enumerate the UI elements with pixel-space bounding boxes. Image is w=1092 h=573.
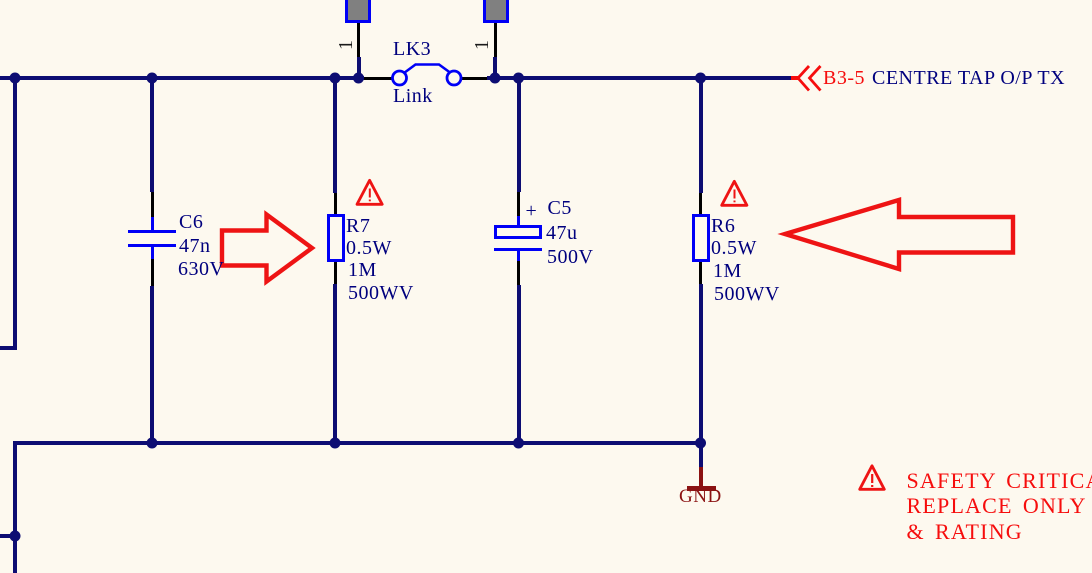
net label CENTRE TAP O/P TX	[872, 68, 1065, 88]
polarity plus of C5	[526, 201, 538, 221]
value 47u	[546, 223, 578, 243]
harness port B3-5 red stub	[791, 76, 799, 80]
wire black segment above C6	[151, 192, 154, 217]
ground GND stem	[699, 467, 703, 486]
junction dot at left vertical / top bus	[10, 73, 21, 84]
wire from pin 2 to bus	[493, 57, 497, 78]
capacitor C6 bottom plate	[128, 244, 176, 247]
junction dot at C6 / top bus	[147, 73, 158, 84]
value 500WV (R6)	[714, 284, 780, 304]
warning triangle at safety note	[860, 466, 885, 490]
junction dot bottom left	[10, 531, 21, 542]
wire black segment below C6	[151, 259, 154, 286]
resistor R6 body	[692, 214, 710, 262]
value 630V	[178, 259, 224, 279]
safety note line 1	[907, 470, 1092, 492]
wire black segment below R7	[334, 261, 337, 284]
ground GND bar	[687, 486, 716, 491]
wire black segment below C5	[517, 261, 520, 285]
red arrow pointing right at R7	[222, 215, 312, 282]
wire black pin stub left of link LK3	[364, 77, 393, 80]
wire C5 branch lower	[517, 285, 521, 445]
pin number 1 of connector pin 2	[472, 35, 492, 55]
harness port B3-5 chevron 1	[798, 66, 809, 91]
label Link	[393, 86, 433, 106]
wire black stem of connector pin 2	[494, 22, 497, 57]
junction dot at R7 / top bus	[330, 73, 341, 84]
wire R6 branch upper	[699, 76, 703, 193]
wire black segment above R6	[699, 193, 702, 215]
connector pin 2	[483, 0, 509, 23]
wire top bus left segment	[0, 76, 364, 80]
wire C6 branch lower	[150, 286, 154, 445]
warning triangle at R6	[722, 181, 747, 205]
value 500WV (R7)	[348, 283, 414, 303]
wire R7 branch upper	[333, 76, 337, 193]
capacitor C6 top plate	[128, 230, 176, 233]
wire C5 branch upper	[517, 76, 521, 192]
link LK3 removable strap	[404, 65, 450, 74]
wire top bus right segment	[487, 76, 792, 80]
connector pin 1	[345, 0, 371, 23]
junction dot at C5 / bottom bus	[513, 438, 524, 449]
label R7	[346, 216, 370, 236]
wire black segment above C5	[517, 192, 520, 216]
wire black segment below R6	[699, 261, 702, 284]
value 1M (R7)	[348, 260, 377, 280]
label R6	[711, 216, 735, 236]
junction dot at R6 / top bus	[695, 73, 706, 84]
value 500V	[547, 247, 593, 267]
wire R6 branch lower to ground	[699, 284, 703, 467]
junction dot at pin 1 / top bus	[353, 73, 364, 84]
junction dot at R7 / bottom bus	[330, 438, 341, 449]
safety note line 3	[907, 521, 1023, 543]
label GND	[679, 487, 722, 507]
link LK3 left terminal circle	[393, 71, 407, 85]
label C6	[179, 212, 203, 232]
wire left stub to edge	[0, 346, 17, 350]
harness port B3-5 chevron 2	[810, 66, 821, 91]
wire black pin stub right of link LK3	[461, 77, 487, 80]
value 47n	[179, 236, 211, 256]
capacitor C6 bottom stub	[151, 246, 154, 259]
resistor R7 body	[327, 214, 345, 262]
warning triangle at R7	[357, 180, 382, 204]
label LK3	[393, 39, 431, 59]
wire left vertical from top bus	[13, 76, 17, 350]
wire black segment above R7	[334, 193, 337, 215]
junction dot at C6 / bottom bus	[147, 438, 158, 449]
wire C6 branch upper	[150, 76, 154, 192]
wire bottom left vertical	[13, 441, 17, 573]
capacitor C5 top stub	[517, 216, 520, 226]
wire R7 branch lower	[333, 284, 337, 445]
capacitor C6 top stub	[151, 217, 154, 231]
junction dot at C5 / top bus	[513, 73, 524, 84]
label C5	[548, 198, 572, 218]
wire black stem of connector pin 1	[357, 22, 360, 57]
capacitor C5 bottom stub	[517, 250, 520, 261]
capacitor C5 bottom plate	[494, 248, 542, 251]
wire bottom left stub to edge	[0, 534, 17, 538]
red arrow pointing left at R6	[785, 200, 1013, 269]
pin number 1 of connector pin 1	[336, 35, 356, 55]
port name B3-5	[823, 68, 865, 88]
wire from pin 1 to bus	[357, 57, 361, 78]
value 0.5W (R6)	[711, 238, 757, 258]
value 0.5W (R7)	[346, 238, 392, 258]
junction dot at pin 2 / top bus	[490, 73, 501, 84]
capacitor C5 top plate (rectangle)	[494, 225, 542, 239]
value 1M (R6)	[713, 261, 742, 281]
safety note line 2	[907, 495, 1092, 517]
junction dot at R6 / bottom bus	[695, 438, 706, 449]
wire bottom bus	[13, 441, 703, 445]
link LK3 right terminal circle	[447, 71, 461, 85]
